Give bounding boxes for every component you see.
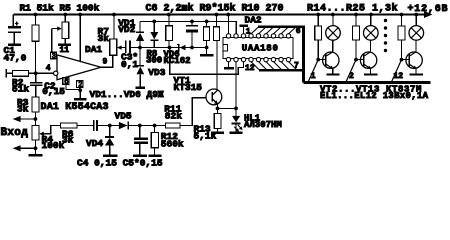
svg-text:1: 1 (311, 72, 316, 81)
svg-text:5,1k: 5,1k (194, 131, 217, 142)
svg-text:9: 9 (103, 58, 108, 67)
svg-text:VD1...VD6 Д9Ж: VD1...VD6 Д9Ж (90, 89, 164, 100)
svg-text:2: 2 (349, 72, 354, 81)
svg-text:EL1...EL12 13Вх0,1А: EL1...EL12 13Вх0,1А (320, 91, 429, 101)
svg-text:0,1: 0,1 (121, 59, 138, 70)
svg-text:47,0: 47,0 (4, 53, 27, 64)
svg-text:12: 12 (245, 64, 255, 73)
svg-text:VD4: VD4 (86, 138, 103, 149)
svg-text:560k: 560k (161, 138, 184, 149)
svg-text:82k: 82k (165, 110, 182, 121)
svg-text:АЛ307НМ: АЛ307НМ (244, 120, 282, 130)
svg-text:DA1 К554СА3: DA1 К554СА3 (41, 102, 109, 113)
svg-text:C6 2,2mk R9*15k R10 270: C6 2,2mk R9*15k R10 270 (146, 3, 284, 15)
svg-text:3k: 3k (17, 103, 29, 114)
svg-text:DA1: DA1 (85, 44, 102, 55)
svg-text:R14...R25 1,3k: R14...R25 1,3k (307, 3, 398, 15)
svg-text:3: 3 (52, 53, 56, 61)
svg-text:R1 51k R5 100k: R1 51k R5 100k (20, 2, 100, 13)
svg-text:7: 7 (294, 61, 299, 70)
svg-text:4: 4 (46, 64, 51, 73)
svg-text:1: 1 (246, 28, 251, 37)
svg-text:12: 12 (394, 72, 404, 81)
svg-text:51k: 51k (12, 84, 29, 95)
svg-text:2: 2 (78, 82, 82, 90)
svg-text:300: 300 (146, 55, 162, 65)
svg-text:VD5: VD5 (115, 111, 132, 122)
svg-text:0,15: 0,15 (42, 86, 65, 97)
svg-text:3k: 3k (98, 33, 110, 44)
svg-text:КТ315: КТ315 (174, 82, 203, 93)
svg-text:UAA180: UAA180 (242, 44, 279, 54)
svg-text:VD3: VD3 (148, 67, 165, 78)
svg-text:11: 11 (60, 46, 70, 55)
svg-text:VD2: VD2 (118, 24, 135, 35)
svg-text:3k: 3k (62, 134, 74, 145)
svg-text:Вход: Вход (1, 127, 29, 139)
svg-text:+12,6В: +12,6В (408, 4, 449, 15)
svg-text:КС162: КС162 (164, 56, 191, 66)
svg-text:DA2: DA2 (245, 15, 262, 26)
svg-text:C4 0,15 C5*0,15: C4 0,15 C5*0,15 (77, 158, 163, 169)
svg-text:6: 6 (296, 27, 301, 36)
